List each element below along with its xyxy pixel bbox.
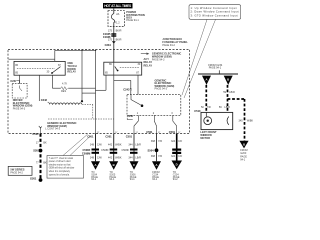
svg-text:C250: C250 <box>127 114 134 118</box>
svg-text:368: 368 <box>151 140 156 143</box>
svg-text:C501: C501 <box>32 132 39 136</box>
svg-text:C243: C243 <box>123 87 130 91</box>
svg-text:W/BK: W/BK <box>115 144 122 147</box>
svg-text:RELAY: RELAY <box>67 70 76 74</box>
svg-text:B: B <box>243 142 245 146</box>
svg-text:C508F: C508F <box>121 149 129 152</box>
svg-text:C510: C510 <box>194 109 201 113</box>
svg-text:A: A <box>94 163 96 167</box>
svg-text:LB/R: LB/R <box>135 144 141 147</box>
svg-text:PAGE 94-2: PAGE 94-2 <box>162 44 175 47</box>
svg-text:442: 442 <box>108 144 113 147</box>
svg-text:RES: RES <box>61 90 66 93</box>
svg-text:368: 368 <box>151 155 156 158</box>
svg-text:window motor so that: window motor so that <box>49 163 71 166</box>
svg-text:ACY: ACY <box>144 57 150 61</box>
svg-text:C/F: C/F <box>178 140 183 143</box>
svg-text:324: 324 <box>171 140 176 143</box>
svg-text:C501: C501 <box>105 135 112 139</box>
svg-text:Y/R: Y/R <box>158 140 162 143</box>
svg-text:W/BK: W/BK <box>115 156 122 159</box>
svg-text:A: A <box>155 163 157 167</box>
svg-text:PAGE 94-3: PAGE 94-3 <box>155 87 168 90</box>
svg-text:C501: C501 <box>146 130 153 134</box>
svg-text:324: 324 <box>171 155 176 158</box>
svg-text:C242: C242 <box>41 98 48 102</box>
svg-text:94-1: 94-1 <box>240 159 246 162</box>
svg-text:442: 442 <box>108 156 113 159</box>
svg-text:C/W: C/W <box>97 156 103 159</box>
svg-text:344: 344 <box>128 156 133 159</box>
svg-text:T/R: T/R <box>207 106 211 109</box>
svg-text:Y/R: Y/R <box>158 155 162 158</box>
svg-text:RELAY: RELAY <box>144 64 153 68</box>
svg-text:2: Down Window Command Input: 2: Down Window Command Input <box>191 10 239 14</box>
svg-text:LB/R: LB/R <box>229 91 235 94</box>
svg-text:LB/R: LB/R <box>224 106 230 109</box>
svg-text:when it is completely: when it is completely <box>49 170 71 173</box>
svg-text:BK: BK <box>43 162 47 165</box>
svg-text:HOT AT ALL TIMES: HOT AT ALL TIMES <box>104 4 132 8</box>
svg-text:C501: C501 <box>126 135 133 139</box>
svg-text:A: A <box>205 77 207 81</box>
svg-text:C: C <box>133 163 135 167</box>
svg-text:PAGE 94-1: PAGE 94-1 <box>209 67 222 70</box>
svg-text:175: 175 <box>108 29 113 32</box>
svg-text:344: 344 <box>128 144 133 147</box>
svg-text:3: GTO Window Command Input: 3: GTO Window Command Input <box>191 13 238 17</box>
svg-text:F1.2: F1.2 <box>115 22 121 25</box>
svg-text:B: B <box>227 77 229 81</box>
svg-text:C508F: C508F <box>101 149 109 152</box>
svg-text:C/F: C/F <box>178 155 183 158</box>
svg-text:L CONT 94-3: L CONT 94-3 <box>45 128 60 131</box>
svg-text:C508M: C508M <box>82 151 90 155</box>
svg-text:BK/R: BK/R <box>116 29 122 32</box>
svg-text:94-1: 94-1 <box>130 178 136 181</box>
svg-text:D: D <box>176 162 178 166</box>
svg-text:BK: BK <box>43 142 47 145</box>
svg-text:LB/R: LB/R <box>135 156 141 159</box>
svg-text:345: 345 <box>239 120 244 123</box>
svg-text:B: B <box>113 163 115 167</box>
svg-text:PAGE 94-1: PAGE 94-1 <box>126 19 139 22</box>
svg-text:opened in a formula.: opened in a formula. <box>49 173 70 176</box>
svg-text:94-1: 94-1 <box>152 178 158 181</box>
svg-text:G201: G201 <box>30 177 37 181</box>
svg-text:W/BK: W/BK <box>247 120 254 123</box>
svg-text:S504: S504 <box>148 149 155 153</box>
svg-text:94-1: 94-1 <box>109 178 115 181</box>
svg-text:348: 348 <box>90 156 95 159</box>
svg-text:94-2: 94-2 <box>173 178 179 181</box>
svg-text:C/W: C/W <box>97 144 103 147</box>
svg-text:power of driver's door: power of driver's door <box>49 160 71 163</box>
svg-text:94-1: 94-1 <box>91 178 97 181</box>
svg-text:PAGE 94-3: PAGE 94-3 <box>13 108 26 111</box>
svg-text:C234: C234 <box>105 43 112 47</box>
svg-text:175: 175 <box>108 39 113 42</box>
svg-text:C501: C501 <box>169 130 176 134</box>
svg-text:4.7K: 4.7K <box>62 83 67 86</box>
svg-text:BK/R: BK/R <box>116 39 122 42</box>
svg-text:PAGE 94-2: PAGE 94-2 <box>10 172 23 175</box>
svg-text:GEM will shut off window: GEM will shut off window <box>49 167 75 170</box>
svg-text:MOTOR: MOTOR <box>200 136 210 140</box>
svg-text:1: Up Window Command Input: 1: Up Window Command Input <box>191 6 237 10</box>
svg-text:348: 348 <box>90 144 95 147</box>
svg-text:S201: S201 <box>33 148 40 152</box>
svg-text:C247: C247 <box>10 79 17 83</box>
svg-text:PAGE 94-3: PAGE 94-3 <box>152 59 165 62</box>
svg-text:2A: 2A <box>116 13 119 16</box>
svg-text:7 and 77: Used to retain: 7 and 77: Used to retain <box>49 157 74 160</box>
